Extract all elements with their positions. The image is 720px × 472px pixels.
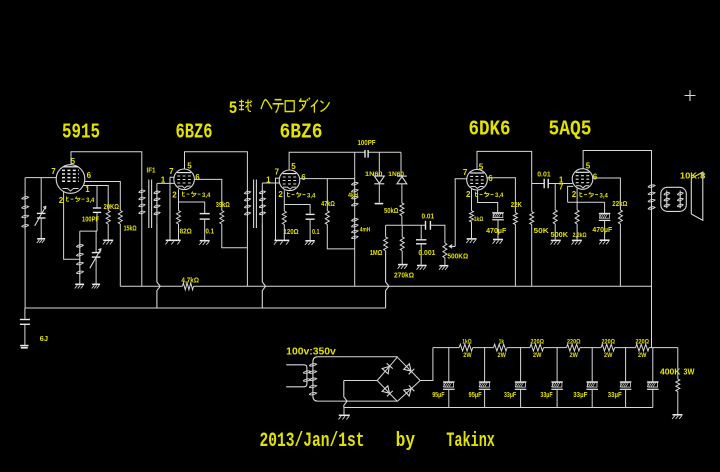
svg-text:6: 6 xyxy=(195,173,200,182)
svg-text:120Ω: 120Ω xyxy=(283,229,299,236)
wire secondary top to bridge top corner xyxy=(318,356,398,358)
svg-text:100PF: 100PF xyxy=(82,217,100,224)
wire V2 grid to IF1 secondary xyxy=(157,182,174,184)
capacitor last filter unlabeled xyxy=(652,348,654,382)
capacitor 6J AVC bypass at left xyxy=(24,308,26,319)
capacitor 33µF filter 3 xyxy=(520,348,522,382)
capacitor 470uF V5 cathode xyxy=(604,202,606,213)
svg-text:5: 5 xyxy=(229,99,237,117)
svg-text:1kΩ: 1kΩ xyxy=(462,339,472,346)
svg-text:39kΩ: 39kΩ xyxy=(216,202,230,209)
svg-text:5: 5 xyxy=(586,161,591,170)
svg-text:1N60: 1N60 xyxy=(388,171,404,178)
resistor 220 2W second xyxy=(567,344,581,351)
wire 0.01 tap on plate line xyxy=(532,183,545,185)
svg-text:5: 5 xyxy=(291,162,296,171)
svg-text:6DK6: 6DK6 xyxy=(469,117,511,141)
resistor 47K xyxy=(325,211,329,225)
svg-text:3,4: 3,4 xyxy=(495,193,504,199)
potentiometer 500K volume xyxy=(443,243,447,258)
capacitor 33µF filter 6 xyxy=(625,348,627,382)
resistor 1k 2W second xyxy=(494,344,508,351)
IF2 primary winding xyxy=(246,184,248,189)
capacitor 0.01 coupling to V5 xyxy=(543,179,545,189)
wire IF1 primary bottom to B+ bus xyxy=(141,227,143,286)
bridge diode top-left xyxy=(382,363,393,374)
tube V1 5915 envelope xyxy=(56,165,85,194)
ground oscillator coil xyxy=(75,283,84,285)
heater label V4 3,4 xyxy=(475,192,493,197)
svg-text:6: 6 xyxy=(87,171,92,180)
svg-text:5AQ5: 5AQ5 xyxy=(549,117,592,141)
wire V4 screen to 22K xyxy=(487,178,515,213)
wire plate rail 5AQ5 to output transformer xyxy=(583,151,651,183)
svg-text:6: 6 xyxy=(301,173,306,182)
capacitor 33µF filter 4 xyxy=(556,348,558,382)
svg-text:270kΩ: 270kΩ xyxy=(394,272,414,279)
wire detector output node xyxy=(386,224,426,226)
capacitor 0.01 detector to volume xyxy=(425,221,427,230)
svg-text:0.1: 0.1 xyxy=(206,229,215,236)
wire V2 g3 stub to ground xyxy=(170,177,175,239)
wire rail after 100PF to diodes xyxy=(368,151,401,153)
ground 400K bleeder xyxy=(673,414,683,416)
IF1 primary winding xyxy=(141,181,143,188)
plus marker top right xyxy=(685,90,696,101)
svg-text:7: 7 xyxy=(51,167,56,176)
ground 270K xyxy=(398,264,408,266)
ground 470uF V4 xyxy=(493,239,503,241)
IF2 core xyxy=(253,180,255,229)
ground VC2 xyxy=(92,283,100,285)
wire V2 cathode bypass branch xyxy=(179,202,205,213)
ground VC1 xyxy=(37,238,45,240)
svg-text:470µF: 470µF xyxy=(592,227,613,234)
wire plate rail 6DK6 xyxy=(477,151,532,178)
wiper arrow 500K xyxy=(449,245,455,249)
capacitor 100PF oscillator xyxy=(93,207,101,209)
svg-text:1: 1 xyxy=(85,185,90,194)
variable capacitor VC1 antenna tuning xyxy=(40,178,42,213)
svg-text:2,2kΩ: 2,2kΩ xyxy=(573,232,587,239)
wire filter ground line xyxy=(344,407,653,409)
svg-text:15kΩ: 15kΩ xyxy=(124,226,137,233)
wire AVC bus xyxy=(25,307,157,309)
wire V1 pin1 to 100PF and 20K xyxy=(84,186,109,211)
svg-text:7: 7 xyxy=(463,168,468,177)
wire V5 cathode xyxy=(576,188,578,202)
svg-text:7: 7 xyxy=(169,167,174,176)
svg-text:82Ω: 82Ω xyxy=(180,229,193,236)
svg-text:33µF: 33µF xyxy=(573,392,588,399)
wire coil column to B+ bus xyxy=(354,249,356,286)
wire V2 cathode xyxy=(178,189,180,210)
speaker voice coil left xyxy=(666,191,668,209)
svg-text:22K: 22K xyxy=(511,202,522,209)
ground 0.1 V3 xyxy=(305,240,315,242)
capacitor 95µF filter 1 xyxy=(448,348,450,382)
wire IF2 secondary bottom to AVC bus with hop xyxy=(262,223,265,308)
svg-text:7: 7 xyxy=(275,168,280,177)
wire V4 cathode to 1k xyxy=(471,189,473,211)
capacitor 100PF detector coupling xyxy=(364,150,366,158)
svg-text:4mH: 4mH xyxy=(360,226,371,233)
variable capacitor VC2 oscillator xyxy=(95,231,97,252)
heater label V5 3,4 xyxy=(580,192,598,197)
svg-text:by: by xyxy=(396,430,416,453)
resistor 39K screen xyxy=(220,211,224,225)
wire 1M to AVC bus with hop over B+ bus xyxy=(386,251,389,308)
power transformer primary leads xyxy=(286,365,307,387)
wire V5 g3 stub to cathode line xyxy=(568,186,574,202)
capacitor 0.1 V3 cathode bypass xyxy=(306,213,315,215)
resistor 50K plate load V4 xyxy=(531,179,533,212)
ground V2 cathode double bar xyxy=(166,239,181,241)
resistor 1k V4 cathode xyxy=(470,211,474,222)
terminal bar 6J xyxy=(20,345,28,347)
svg-text:2: 2 xyxy=(172,191,177,200)
wire screen tap down to 47K xyxy=(326,179,328,211)
antenna coil L1 xyxy=(24,178,26,193)
svg-text:5: 5 xyxy=(479,163,484,172)
ground V3 cathode double bar xyxy=(274,239,289,241)
wire V4 cathode bypass branch xyxy=(478,190,498,213)
svg-text:6: 6 xyxy=(488,174,493,183)
wire V3 cathode xyxy=(283,190,285,211)
wire 50K to B+ bus xyxy=(531,225,533,287)
ground 20K xyxy=(103,239,113,241)
wire plate rail tube2 to IF2 xyxy=(185,152,248,184)
svg-text:1k: 1k xyxy=(499,339,504,346)
wire V3 cathode bypass branch xyxy=(284,205,310,214)
svg-text:Takinx: Takinx xyxy=(446,430,495,453)
tube V3 6BZ6 envelope xyxy=(279,170,300,191)
ground 0.001 xyxy=(417,265,427,267)
svg-text:0.001: 0.001 xyxy=(418,250,435,257)
wire 22k to B+ bus xyxy=(619,224,621,286)
resistor 120 ohm cathode xyxy=(282,211,286,225)
svg-text:3,4: 3,4 xyxy=(307,193,316,199)
heater label V1 3,4 xyxy=(66,197,84,202)
heater label V2 3,4 xyxy=(182,192,200,197)
wire 22K to B+ bus xyxy=(514,225,516,287)
wire 100PF tap down xyxy=(96,186,98,208)
svg-text:7: 7 xyxy=(559,183,564,192)
resistor 15K screen dropper xyxy=(118,211,122,225)
svg-text:400K: 400K xyxy=(660,368,681,377)
ground 1k V4 xyxy=(467,238,477,240)
resistor 1k 2W first xyxy=(459,344,473,351)
svg-text:2W: 2W xyxy=(570,352,579,359)
svg-text:2W: 2W xyxy=(604,352,613,359)
wire wiper to V4 grid xyxy=(455,179,467,247)
wire grid return tap to 500K xyxy=(554,184,556,210)
heater label V3 3,4 xyxy=(287,192,305,197)
svg-text:2: 2 xyxy=(466,190,471,199)
wire plate rail tube3 to detector xyxy=(289,152,365,170)
svg-text:220Ω: 220Ω xyxy=(636,339,650,346)
svg-text:220Ω: 220Ω xyxy=(602,339,616,346)
wire bridge plus to filter line xyxy=(420,348,433,381)
resistor 50K diode load xyxy=(400,203,404,216)
resistor 4.7k B+ decoupling xyxy=(183,283,194,290)
svg-text:6BZ6: 6BZ6 xyxy=(176,120,213,144)
resistor 220 2W first xyxy=(530,344,544,351)
wire B+ bus right segment xyxy=(194,285,652,287)
bridge diode top-right xyxy=(404,364,415,375)
svg-text:2W: 2W xyxy=(638,352,647,359)
speaker voice coil right xyxy=(679,191,681,209)
tube V5 5AQ5 envelope xyxy=(572,169,593,190)
svg-text:4,7kΩ: 4,7kΩ xyxy=(181,277,199,284)
speaker horn cone xyxy=(691,172,703,220)
svg-text:220Ω: 220Ω xyxy=(567,339,581,346)
wire B+ filter top line xyxy=(433,347,459,349)
wire 0.01 to volume pot xyxy=(430,225,445,243)
svg-text:500K: 500K xyxy=(551,230,569,239)
wire antenna coil bottom to AVC bus xyxy=(24,230,26,308)
wire IF2 primary bottom to B+ bus xyxy=(246,227,248,286)
svg-text:0.01: 0.01 xyxy=(422,214,435,221)
svg-text:10K:8: 10K:8 xyxy=(680,171,706,181)
resistor 220 2W third xyxy=(601,344,615,351)
bridge diode bottom-right xyxy=(404,385,415,396)
svg-text:3,4: 3,4 xyxy=(86,198,95,204)
capacitor 0.001 xyxy=(420,225,422,239)
speaker driver body xyxy=(661,187,687,211)
svg-text:5: 5 xyxy=(71,157,76,166)
resistor 400K 3W bleeder xyxy=(677,348,679,379)
resistor 1M AVC xyxy=(385,225,387,237)
wire 39K bottom to IF2 primary line xyxy=(222,224,248,248)
power transformer secondary winding xyxy=(313,357,318,401)
svg-text:IF1: IF1 xyxy=(147,168,156,175)
svg-text:2: 2 xyxy=(278,190,283,199)
svg-text:1MΩ: 1MΩ xyxy=(370,250,383,257)
wire OPT primary bottom to power supply xyxy=(651,211,653,347)
resistor 82 ohm cathode xyxy=(177,211,181,225)
svg-text:3,4: 3,4 xyxy=(600,193,609,199)
svg-text:470µF: 470µF xyxy=(486,228,507,235)
diode D1 1N60 xyxy=(378,152,380,176)
IF1 secondary winding xyxy=(156,183,158,188)
svg-text:220Ω: 220Ω xyxy=(531,339,545,346)
svg-text:4kH: 4kH xyxy=(348,192,358,199)
ground power supply common xyxy=(339,414,350,416)
output transformer primary winding xyxy=(651,182,653,211)
choke 4kH upper xyxy=(354,177,356,180)
wire secondary bottom to bridge bottom corner xyxy=(318,400,398,402)
terminal bar D1 ground xyxy=(375,203,384,205)
svg-text:1N60: 1N60 xyxy=(365,171,383,178)
tube V2 6BZ6 envelope xyxy=(174,169,195,190)
wire osc top junction xyxy=(80,230,97,232)
resistor 22k screen V5 xyxy=(618,210,622,224)
IF1 core xyxy=(148,180,150,229)
resistor 270K xyxy=(401,225,403,237)
resistor 22K screen V4 xyxy=(513,213,517,225)
svg-text:20KΩ: 20KΩ xyxy=(104,204,120,211)
wire V5 screen to 22k xyxy=(593,178,621,210)
wire V5 cathode branch xyxy=(568,201,605,203)
wire 47K bottom to coil column xyxy=(327,224,354,249)
resistor 2.2k V5 cathode xyxy=(576,202,578,210)
svg-text:50kΩ: 50kΩ xyxy=(384,208,399,215)
svg-text:2W: 2W xyxy=(498,352,507,359)
ground 0.1 V2 xyxy=(200,240,210,242)
ground 470uF V5 xyxy=(600,239,610,241)
svg-text:22kΩ: 22kΩ xyxy=(612,201,627,208)
wire plate rail tube1 to IF1 xyxy=(71,152,142,181)
svg-text:6J: 6J xyxy=(40,334,48,343)
resistor 220 2W fourth xyxy=(636,344,650,351)
ground 500K V5 xyxy=(551,239,561,241)
svg-text:0.1: 0.1 xyxy=(312,229,320,236)
wire IF1 secondary bottom to AVC bus with hop over B+ bus xyxy=(157,223,160,308)
wire V1 screen pin6 to 15K xyxy=(84,182,120,211)
capacitor 470uF V4 cathode xyxy=(492,212,504,214)
choke 4mH lower xyxy=(354,208,356,217)
wire drop to detector coil column xyxy=(354,152,356,177)
svg-text:95µF: 95µF xyxy=(469,392,483,399)
svg-text:33µF: 33µF xyxy=(504,392,517,399)
svg-text:1kΩ: 1kΩ xyxy=(474,216,484,223)
capacitor 95µF filter 2 xyxy=(484,348,486,382)
svg-text:500KΩ: 500KΩ xyxy=(447,254,468,261)
svg-text:100v:350v: 100v:350v xyxy=(286,347,336,358)
tube V4 6DK6 envelope xyxy=(467,169,488,190)
svg-text:5: 5 xyxy=(187,161,192,170)
bridge diode bottom-left xyxy=(382,386,393,397)
svg-text:95µF: 95µF xyxy=(432,392,445,399)
svg-text:2: 2 xyxy=(572,190,577,199)
svg-text:0.01: 0.01 xyxy=(537,172,551,179)
wire V3 g3 stub to ground xyxy=(276,178,281,240)
wire transformer center ground xyxy=(343,408,345,415)
oscillator coil L2 xyxy=(79,231,81,241)
svg-text:6: 6 xyxy=(593,172,598,181)
wire 15K to B+ bus xyxy=(119,224,121,286)
bridge rectifier diamond xyxy=(377,357,397,380)
wire V1 grid from antenna coil xyxy=(25,177,56,179)
wire B+ bus left segment xyxy=(120,285,182,287)
resistor 20K grid leak xyxy=(106,211,110,225)
svg-text:5915: 5915 xyxy=(62,120,100,144)
wire V3 grid to IF2 secondary xyxy=(262,182,279,184)
svg-text:47kΩ: 47kΩ xyxy=(321,201,335,208)
svg-text:3,4: 3,4 xyxy=(202,193,211,199)
svg-text:33µF: 33µF xyxy=(540,392,553,399)
ground 2.2k V5 xyxy=(572,239,582,241)
wire bridge minus from left corner with hop xyxy=(344,380,377,382)
svg-text:6BZ6: 6BZ6 xyxy=(280,120,323,144)
wire V2 screen to 39K xyxy=(194,179,221,210)
capacitor 0.1 V2 cathode bypass xyxy=(200,213,210,215)
svg-text:33µF: 33µF xyxy=(608,392,623,399)
wire V1 cathode to osc coil tap xyxy=(64,192,80,259)
svg-text:2W: 2W xyxy=(533,352,542,359)
IF2 secondary winding xyxy=(261,183,263,189)
svg-text:2: 2 xyxy=(59,196,64,205)
svg-text:2013/Jan/1st: 2013/Jan/1st xyxy=(260,430,365,453)
power transformer primary winding loops xyxy=(303,371,311,374)
diode D2 1N60 xyxy=(400,152,402,175)
svg-text:50K: 50K xyxy=(534,226,550,235)
wire V3 screen line to detector coil column xyxy=(299,178,354,180)
wire 0.01 to V5 grid xyxy=(548,183,572,185)
ground 500K pot xyxy=(439,265,448,267)
resistor 500K V5 grid xyxy=(553,210,557,224)
svg-text:100PF: 100PF xyxy=(358,140,377,147)
svg-text:3W: 3W xyxy=(683,368,694,377)
svg-text:2W: 2W xyxy=(463,352,472,359)
capacitor 33µF filter 5 xyxy=(591,348,593,382)
